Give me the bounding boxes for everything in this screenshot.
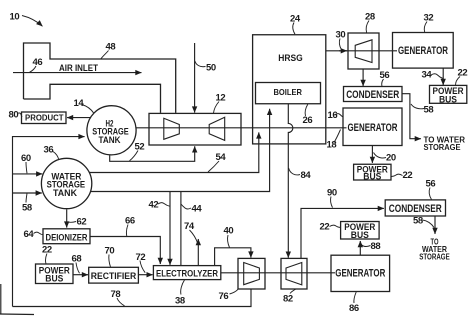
box power bus 22 mid right (354, 164, 391, 180)
wire leader 88 (361, 243, 371, 247)
svg-text:76: 76 (219, 291, 229, 302)
wire leader 50 (195, 61, 206, 67)
wire left return main (13, 137, 85, 307)
wire arrow from 10 (22, 16, 43, 27)
svg-text:BUS: BUS (351, 230, 369, 240)
wire leader 58 top (411, 104, 424, 109)
wire 40 electrolyzer to turbine 76 (215, 248, 251, 266)
wire leader 20 (374, 153, 387, 158)
wire 74 H2 out of electrolyzer (197, 239, 199, 266)
svg-text:14: 14 (74, 98, 85, 109)
svg-text:GENERATOR: GENERATOR (398, 45, 448, 57)
svg-text:56: 56 (380, 70, 390, 81)
wire leader 62 (68, 221, 77, 224)
wire steam 30 to turbine 28 (326, 50, 397, 52)
wire leader 36 (53, 152, 59, 160)
svg-text:STORAGE: STORAGE (419, 251, 450, 261)
wire leader 68 (76, 263, 80, 274)
wire 20 generator to power bus (371, 146, 373, 163)
wire leader 22 mid right (392, 174, 403, 176)
wire bottom shaft electrolyzer to generator 86 (221, 272, 335, 274)
wire leader 24 (293, 23, 295, 35)
svg-text:10: 10 (10, 12, 20, 23)
wire return line into tank 60 (13, 173, 43, 175)
tank water storage 36 (41, 158, 91, 208)
wire leader 52 (130, 151, 139, 161)
wire leader 72 (140, 261, 145, 273)
wire leader 86 (354, 292, 356, 303)
wire leader 64 (34, 232, 44, 235)
svg-text:40: 40 (224, 226, 234, 237)
wire 42 water feed to electrolyzer (169, 192, 171, 265)
box steam turbine 28 (348, 33, 379, 69)
wire 68 power bus to rectifier (73, 274, 88, 276)
wire leader 44 (181, 204, 191, 209)
svg-text:82: 82 (283, 294, 293, 305)
wire leader 90 (331, 197, 333, 208)
svg-text:STORAGE: STORAGE (424, 142, 461, 152)
box generator 32 (393, 33, 454, 69)
svg-text:90: 90 (327, 188, 337, 199)
wire leader 56 top (382, 79, 384, 86)
svg-text:32: 32 (424, 13, 434, 24)
wire 34 generator 32 to power bus (442, 68, 444, 85)
wire leader 46 (30, 66, 37, 72)
box power bus 22 bottom mid (341, 222, 380, 240)
turbine trapezoid 28 (355, 40, 372, 63)
turbine trapezoid 82 (286, 263, 302, 285)
wire leader 22 top right (456, 77, 461, 86)
svg-text:66: 66 (125, 216, 135, 227)
tank H2 storage 14 (87, 106, 136, 155)
wire AIR INLET arrow 46 (13, 72, 142, 74)
wire leader 74 (190, 230, 198, 244)
turbine trapezoid in 12 (209, 117, 225, 140)
svg-text:PRODUCT: PRODUCT (25, 114, 64, 123)
svg-text:AIR INLET: AIR INLET (59, 63, 98, 73)
svg-text:BOILER: BOILER (273, 87, 302, 97)
wire 52 H2 feed to turbine (110, 146, 195, 161)
svg-text:56: 56 (426, 179, 436, 190)
wire leader 70 (109, 255, 111, 267)
turbine trapezoid 76 (244, 263, 260, 285)
wire water to boiler (91, 109, 270, 192)
svg-text:26: 26 (303, 115, 313, 126)
wire leader 58 bottom right (423, 220, 435, 228)
wire 88 generator to power bus (359, 241, 361, 255)
wire 58 condenser to water storage bottom (434, 216, 436, 234)
wire leader 18 (334, 130, 341, 143)
box generator 86 (331, 255, 390, 291)
wire leader 26 (305, 104, 308, 116)
box gas turbine 12 (149, 113, 241, 145)
wire shaft tank to generator 16 with hop (135, 127, 346, 129)
svg-text:50: 50 (206, 63, 216, 74)
svg-text:36: 36 (44, 145, 54, 156)
wire 90 turbine 82 to condenser (301, 208, 384, 258)
box PRODUCT 80 (22, 112, 67, 124)
svg-text:54: 54 (216, 152, 227, 163)
wire 78 turbine 76 exhaust return (13, 289, 252, 307)
box power bus 22 top right (430, 85, 467, 103)
svg-text:BUS: BUS (439, 94, 457, 104)
wire leader 84 (289, 168, 300, 175)
svg-text:ELECTROLYZER: ELECTROLYZER (156, 268, 218, 278)
svg-text:62: 62 (77, 217, 87, 228)
scan artifact bottom left (0, 313, 34, 316)
wire leader 28 (366, 21, 369, 33)
wire 58 condenser to water storage (402, 94, 421, 139)
wire product from H2 tank (67, 117, 91, 119)
wire 50 fuel line into turbine (194, 43, 196, 113)
wire 62 tank to deionizer (66, 210, 68, 228)
svg-text:88: 88 (371, 241, 381, 252)
svg-text:GENERATOR: GENERATOR (335, 268, 385, 280)
box turbine 76 (238, 258, 265, 289)
box electrolyzer 38 (153, 266, 220, 280)
wire leader 30 (339, 39, 341, 50)
svg-text:CONDENSER: CONDENSER (346, 89, 399, 101)
wire leader 40 (228, 235, 230, 248)
wire leader 22 bottom mid (330, 225, 341, 227)
box rectifier 70 (89, 267, 139, 283)
svg-text:20: 20 (386, 153, 396, 164)
svg-text:16: 16 (328, 110, 338, 121)
svg-text:22: 22 (403, 170, 413, 181)
svg-text:CONDENSER: CONDENSER (389, 203, 442, 215)
svg-text:RECTIFIER: RECTIFIER (91, 271, 137, 281)
box HRSG 24 (253, 35, 326, 144)
wire leader 12 (214, 102, 220, 114)
wire leader 82 (290, 289, 296, 293)
wire leader 32 (424, 22, 427, 33)
scan artifact left edge (0, 284, 2, 314)
svg-text:22: 22 (320, 222, 330, 233)
svg-text:BUS: BUS (363, 172, 381, 182)
svg-text:28: 28 (365, 12, 375, 23)
svg-text:42: 42 (149, 200, 159, 211)
wire 66 deionizer to electrolyzer (90, 237, 160, 265)
wire 84 boiler steam down with hop (288, 104, 293, 258)
svg-text:46: 46 (33, 57, 43, 68)
svg-text:48: 48 (106, 42, 116, 53)
wire leader 34 (431, 74, 443, 79)
wire turbine 28 to condenser (362, 69, 364, 86)
wire leader 80 (18, 113, 23, 117)
svg-text:24: 24 (290, 14, 301, 25)
wire leader 56 bottom right (429, 188, 431, 200)
air inlet duct outline (24, 43, 176, 113)
svg-text:12: 12 (216, 93, 226, 104)
svg-text:30: 30 (336, 30, 346, 41)
box BOILER 26 (256, 83, 321, 104)
svg-text:38: 38 (175, 296, 185, 307)
wire leader 58 left (26, 194, 27, 203)
box power bus 22 bottom left (36, 264, 74, 284)
wire leader 38 (181, 280, 185, 295)
svg-text:TANK: TANK (99, 135, 122, 145)
wire leader 22 bottom left (45, 254, 47, 264)
svg-text:DEIONIZER: DEIONIZER (46, 232, 88, 242)
svg-text:44: 44 (192, 204, 203, 215)
box generator 16 (343, 108, 402, 146)
svg-text:58: 58 (424, 105, 434, 116)
wire leader 42 (158, 203, 170, 207)
box condenser 56 bottom right (385, 200, 445, 216)
svg-text:80: 80 (9, 110, 19, 121)
svg-text:78: 78 (111, 289, 121, 300)
box deionizer 64 (43, 229, 90, 244)
svg-text:TANK: TANK (53, 188, 78, 198)
wire leader 78 (117, 298, 125, 306)
wire leader 16 (335, 114, 344, 117)
compressor trapezoid in 12 (164, 118, 180, 139)
svg-text:52: 52 (135, 142, 145, 153)
svg-text:86: 86 (349, 303, 359, 314)
wire return line into tank 58 (13, 192, 42, 194)
wire leader 60 (26, 162, 27, 173)
svg-text:64: 64 (24, 229, 35, 240)
svg-text:58: 58 (22, 203, 32, 214)
box condenser 56 top (344, 87, 403, 102)
svg-text:HRSG: HRSG (278, 53, 303, 63)
wire 54 water to HRSG (89, 132, 258, 172)
wire leader 54 (208, 161, 219, 172)
svg-text:84: 84 (301, 170, 312, 181)
box turbine 82 (281, 258, 307, 289)
wire leader 48 (101, 51, 109, 59)
wire leader 14 (82, 105, 94, 114)
svg-text:BUS: BUS (45, 274, 63, 284)
svg-text:GENERATOR: GENERATOR (348, 122, 398, 134)
wire 44 feed to electrolyzer (180, 192, 182, 266)
svg-text:58: 58 (413, 216, 423, 227)
wire leader 66 (126, 225, 128, 237)
wire leader 76 (230, 289, 239, 294)
svg-text:34: 34 (422, 70, 433, 81)
wire 72 rectifier to electrolyzer (138, 274, 152, 276)
